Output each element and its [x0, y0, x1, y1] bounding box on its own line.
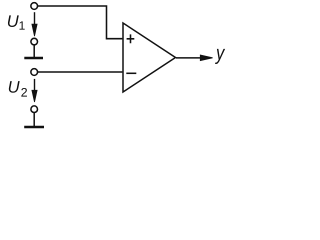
terminal circle: U1 negative	[31, 38, 38, 45]
ground (U1 branch)	[24, 57, 43, 59]
wire: U2 terminal to ground	[33, 113, 35, 126]
output wire with arrow	[176, 55, 213, 61]
voltage arrow U2	[32, 79, 37, 102]
terminal circle: U2 positive	[31, 69, 38, 76]
terminal circle: U2 negative	[31, 106, 38, 113]
wire: U2 top terminal to op-amp inverting input	[38, 71, 123, 73]
op-amp inverting input marker −	[126, 72, 136, 74]
op-amp comparator (triangle)	[123, 23, 176, 92]
voltage arrow U1	[32, 12, 37, 36]
ground (U2 branch)	[24, 126, 44, 129]
wire: U1 terminal to ground	[33, 45, 35, 57]
label U1	[8, 15, 19, 27]
label y (output)	[215, 49, 225, 64]
label U2	[9, 81, 20, 93]
terminal circle: U1 positive	[31, 3, 38, 10]
wire: U1 top terminal to op-amp non-inverting input	[38, 6, 123, 39]
op-amp non-inverting input marker +	[127, 34, 135, 43]
